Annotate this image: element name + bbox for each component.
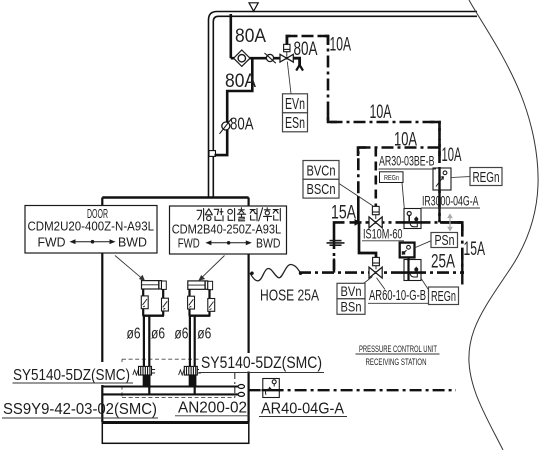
svg-text:SY5140-5DZ(SMC): SY5140-5DZ(SMC) bbox=[13, 367, 130, 384]
wire manifold bus line R bbox=[103, 392, 245, 396]
wire manifold bus line P bbox=[103, 385, 245, 389]
svg-text:10A: 10A bbox=[442, 145, 462, 166]
svg-text:80A: 80A bbox=[235, 26, 266, 47]
wire tube bundle stub cyl2 bbox=[189, 376, 197, 388]
label AR30-03BE-B bbox=[379, 154, 437, 170]
valve EV actuator box bbox=[284, 44, 290, 51]
pipe coupling fitting on main pipe bbox=[209, 151, 216, 157]
hose squiggle HOSE 25A bbox=[250, 264, 302, 280]
label IR3000-04G-A bbox=[421, 194, 480, 209]
cylinder CDM2U20 (no.1) bbox=[141, 281, 168, 316]
leader arrow box2 to cylinder2 bbox=[198, 256, 224, 282]
tag box ESn bbox=[283, 113, 308, 132]
solenoid valve SY5140 no.2 bbox=[179, 366, 201, 375]
label SY5140-5DZ(SMC) right bbox=[199, 353, 324, 373]
wire 15A line (dash-dot) bbox=[350, 222, 463, 272]
vent triangle on main pipe bbox=[249, 3, 258, 11]
svg-text:AR30-03BE-B: AR30-03BE-B bbox=[379, 154, 435, 169]
regulator AR40-04G-A bbox=[262, 379, 281, 398]
label AR60-10-G-B bbox=[368, 288, 428, 304]
wire 80A bypass drop bbox=[215, 58, 253, 155]
wire solid pilot L-line to lower valve bbox=[359, 222, 376, 258]
svg-text:80A: 80A bbox=[230, 114, 254, 134]
reducer symbol (circle-slash) on 80A line bbox=[265, 53, 276, 63]
wire 80A horizontal branch line bbox=[231, 57, 293, 60]
svg-text:IS10M-60: IS10M-60 bbox=[363, 227, 403, 242]
node 10A second header (dash-dot) bbox=[358, 148, 439, 197]
label AR40-04G-A bbox=[259, 401, 347, 418]
svg-text:15A: 15A bbox=[464, 239, 486, 260]
svg-text:25A: 25A bbox=[431, 252, 455, 273]
wire 15A left drop (dash-dot) bbox=[333, 239, 336, 273]
regulator AR60 on 25A line bbox=[403, 260, 422, 281]
wire solid corner patches on dash-dot headers bbox=[287, 36, 462, 231]
label AN200-02 bbox=[175, 400, 249, 417]
valve IS10M-60 (bowtie) bbox=[369, 217, 382, 228]
leader AR60 to REGn tag bbox=[421, 278, 430, 291]
manifold dashed outline left bbox=[121, 359, 123, 397]
svg-text:RECEIVING STATION: RECEIVING STATION bbox=[366, 357, 427, 367]
wire 15A left elbow solid bbox=[334, 222, 345, 239]
wire pilot drop to IS10M actuator (dashed) bbox=[374, 148, 377, 207]
gauge double-arrow (gray) on 15A line bbox=[448, 215, 452, 231]
tick on 25A line right junction bbox=[461, 259, 463, 285]
wire mini REGn to filter bbox=[402, 183, 404, 209]
leader PS box to PSn tag bbox=[415, 241, 432, 248]
svg-text:IR3000-04G-A: IR3000-04G-A bbox=[422, 194, 479, 209]
svg-text:REGn: REGn bbox=[473, 169, 500, 186]
valve EV (80A shut-off, bowtie) bbox=[280, 54, 293, 62]
svg-text:FWD: FWD bbox=[178, 236, 200, 250]
svg-text:AR60-10-G-B: AR60-10-G-B bbox=[369, 288, 426, 304]
wire cylinder1 tube B bbox=[148, 316, 150, 395]
svg-text:BVCn: BVCn bbox=[307, 162, 336, 179]
svg-text:PRESSURE CONTROL UNIT: PRESSURE CONTROL UNIT bbox=[359, 344, 437, 354]
svg-text:AN200-02: AN200-02 bbox=[178, 400, 247, 417]
label IS10M-60 bbox=[362, 227, 404, 242]
tag box BSCn bbox=[303, 179, 339, 198]
svg-text:BWD: BWD bbox=[118, 235, 147, 249]
svg-text:15A: 15A bbox=[331, 203, 356, 224]
wire 25A line (dash-dot) bbox=[299, 271, 464, 274]
svg-text:SS9Y9-42-03-02(SMC): SS9Y9-42-03-02(SMC) bbox=[3, 401, 157, 418]
svg-text:HOSE 25A: HOSE 25A bbox=[260, 288, 320, 305]
manifold dashed outline top bbox=[122, 358, 200, 360]
leader line valve to EVn tag bbox=[287, 62, 291, 94]
svg-text:BVn: BVn bbox=[341, 283, 362, 299]
hose nipple elbow after valve bbox=[293, 58, 303, 70]
svg-text:PSn: PSn bbox=[435, 233, 455, 249]
manifold dash-dot right drop bbox=[234, 373, 236, 398]
wire cylinder2 tube B bbox=[194, 316, 196, 395]
svg-text:ESn: ESn bbox=[285, 115, 305, 132]
wire AR40 feed line (dash-dot) bbox=[249, 389, 456, 391]
svg-text:10A: 10A bbox=[394, 130, 417, 151]
label SS9Y9-42-03-02(SMC) bbox=[2, 401, 158, 418]
union fitting on 15A drop bbox=[327, 241, 345, 246]
tag box BVn bbox=[337, 283, 365, 299]
svg-text:ø6: ø6 bbox=[197, 325, 211, 342]
description box lifting pipe (Korean) bbox=[170, 206, 287, 254]
leader arrow box1 to cylinder1 bbox=[115, 256, 145, 282]
solenoid valve SY5140 no.1 bbox=[133, 366, 155, 375]
label PRESSURE CONTROL UNIT bbox=[356, 344, 440, 354]
tag box PSn bbox=[431, 233, 458, 249]
mini REGn indicator box of AR30 bbox=[380, 172, 404, 183]
tag box REGn upper bbox=[470, 168, 502, 186]
svg-text:80A: 80A bbox=[294, 39, 318, 60]
leader IR3000 to REGn tag bbox=[451, 176, 470, 179]
junction flow arrow on 15A line bbox=[355, 219, 362, 226]
label SY5140-5DZ(SMC) left bbox=[10, 362, 133, 385]
wire PS box to AR60 bbox=[407, 257, 409, 261]
wire IS10M actuator stem bbox=[375, 215, 377, 219]
valve IS10M actuator box bbox=[372, 206, 379, 214]
wire IR3000 outlet solid bbox=[438, 190, 440, 222]
wire tube bundle stub cyl1 bbox=[143, 376, 151, 388]
cylinder CDM2B40 (no.2) bbox=[188, 281, 215, 316]
svg-text:BSn: BSn bbox=[341, 298, 362, 314]
leader lower valve to BVn tag bbox=[364, 277, 373, 284]
manifold base plate box bbox=[102, 422, 250, 444]
wire main supply pipe 80A (double line) bbox=[209, 12, 478, 198]
node 10A pilot header (dash-dot) bbox=[287, 36, 440, 222]
filter-separator on 15A line bbox=[403, 209, 422, 229]
svg-text:EVn: EVn bbox=[285, 96, 305, 113]
tick on 25A line left junction bbox=[333, 259, 335, 273]
svg-text:REGn: REGn bbox=[431, 289, 456, 305]
pressure switch PS box (thick border) bbox=[400, 243, 415, 258]
valve BV lower (bowtie) bbox=[369, 267, 382, 278]
svg-text:FWD: FWD bbox=[38, 235, 66, 249]
wire solid segment of second header bbox=[357, 196, 360, 222]
svg-text:BSCn: BSCn bbox=[307, 181, 336, 198]
wire actuator stem bbox=[286, 52, 288, 57]
svg-text:80A: 80A bbox=[225, 71, 256, 92]
leader BSCn to IS10M actuator bbox=[339, 184, 374, 207]
wire 15A right segment solid bbox=[440, 221, 462, 224]
wire BV actuator stem bbox=[375, 266, 377, 270]
leader lower valve to AR60 label bbox=[377, 278, 386, 290]
svg-text:ø6: ø6 bbox=[174, 325, 188, 342]
wire cylinder1 tube A bbox=[143, 316, 145, 387]
description box DOOR bbox=[25, 206, 157, 254]
svg-text:REGn: REGn bbox=[384, 175, 399, 182]
svg-text:CDM2U20-400Z-N-A93L: CDM2U20-400Z-N-A93L bbox=[28, 219, 155, 233]
break line curve right side bbox=[469, 0, 538, 450]
check valve (diamond with circle) bbox=[234, 50, 250, 66]
svg-text:BWD: BWD bbox=[256, 236, 281, 250]
wire 80A branch tap from main pipe bbox=[230, 14, 233, 58]
regulator IR3000 on 10A drop bbox=[433, 168, 451, 190]
svg-text:AR40-04G-A: AR40-04G-A bbox=[261, 401, 344, 418]
tag box REGn lower bbox=[429, 287, 459, 305]
svg-text:ø6: ø6 bbox=[151, 325, 165, 342]
valve BV actuator box bbox=[373, 257, 380, 265]
reducer symbol (circle-slash) on bypass line bbox=[220, 118, 232, 134]
svg-text:SY5140-5DZ(SMC): SY5140-5DZ(SMC) bbox=[201, 353, 322, 372]
tag box EVn bbox=[283, 94, 308, 113]
svg-text:ø6: ø6 bbox=[127, 325, 141, 342]
manifold dashed outline bottom bbox=[122, 397, 235, 399]
svg-text:CDM2B40-250Z-A93L: CDM2B40-250Z-A93L bbox=[172, 222, 282, 236]
tag box BVCn bbox=[303, 161, 339, 180]
svg-text:10A: 10A bbox=[370, 102, 392, 123]
svg-text:10A: 10A bbox=[330, 35, 352, 56]
wire cylinder2 tube A bbox=[189, 316, 191, 387]
tag box BSn bbox=[337, 298, 365, 314]
enclosure pressure control unit frame bbox=[102, 198, 248, 423]
